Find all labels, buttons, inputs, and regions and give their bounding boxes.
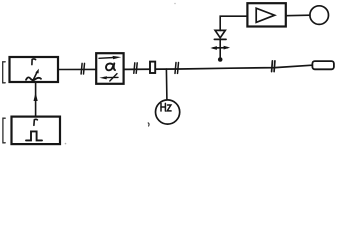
G1 sine symbol bbox=[26, 77, 41, 80]
G2 pulse symbol bbox=[26, 131, 42, 140]
probe travel double arrow bbox=[210, 46, 230, 50]
wire junction to frequency meter bbox=[165, 69, 168, 100]
attenuator box bbox=[96, 53, 123, 84]
generator G1 box bbox=[10, 57, 59, 82]
detector diode triangle bbox=[215, 30, 225, 37]
attenuator top arrow bbox=[99, 56, 121, 59]
coaxial connector 3 bbox=[175, 63, 179, 74]
G1 gamma label bbox=[32, 59, 36, 65]
G2 gamma label bbox=[34, 119, 38, 125]
scan speck top middle bbox=[174, 3, 176, 5]
wire amplifier to indicator bbox=[286, 14, 310, 17]
sync arrowhead bbox=[34, 92, 38, 101]
line section element bbox=[150, 62, 155, 73]
indicator circle bbox=[310, 6, 329, 25]
probe dot bbox=[218, 57, 223, 62]
amplifier triangle bbox=[256, 8, 274, 22]
detector diode cathode bar bbox=[214, 38, 226, 40]
wire diode to amplifier bbox=[220, 16, 247, 30]
coaxial connector 1 bbox=[81, 63, 84, 74]
main line attenuator to load bbox=[124, 65, 313, 69]
coaxial connector 4 bbox=[272, 61, 275, 72]
probe stem bbox=[219, 40, 221, 58]
wire G1 to attenuator bbox=[58, 68, 96, 70]
left margin bracket top bbox=[3, 62, 5, 83]
matched load bbox=[312, 61, 334, 69]
sync wire G2 to G1 bbox=[35, 82, 37, 117]
pulse generator G2 box bbox=[12, 117, 61, 145]
scan speck below pulse generator bbox=[65, 143, 67, 145]
G1 tuning arrow bbox=[32, 69, 38, 82]
attenuator alpha label bbox=[106, 63, 115, 70]
frequency meter circle bbox=[156, 100, 180, 124]
frequency meter Hz label bbox=[161, 103, 171, 111]
amplifier box bbox=[247, 3, 285, 26]
coaxial connector 2 bbox=[134, 63, 137, 73]
scan speck comma left of frequency meter bbox=[147, 123, 150, 126]
attenuator bottom arrow with slash bbox=[99, 74, 118, 81]
left margin bracket bottom bbox=[3, 118, 5, 143]
